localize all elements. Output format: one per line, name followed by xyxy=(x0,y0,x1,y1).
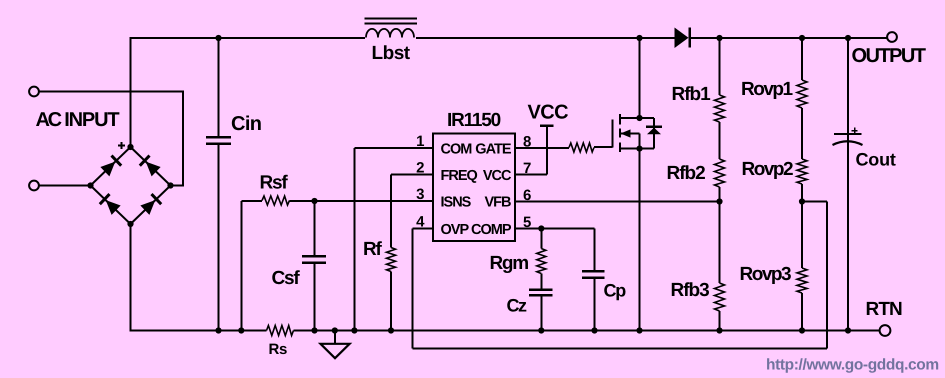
svg-text:COMP: COMP xyxy=(471,222,512,238)
svg-text:1: 1 xyxy=(416,133,424,150)
svg-text:7: 7 xyxy=(523,160,531,177)
svg-text:VCC: VCC xyxy=(483,168,512,184)
svg-text:VFB: VFB xyxy=(485,195,512,211)
svg-text:Rfb1: Rfb1 xyxy=(672,84,712,105)
svg-text:Rf: Rf xyxy=(363,239,383,260)
svg-text:http://www.go-gddq.com: http://www.go-gddq.com xyxy=(766,357,939,374)
svg-text:4: 4 xyxy=(416,214,425,231)
svg-text:Rsf: Rsf xyxy=(260,172,289,193)
svg-text:INPUT: INPUT xyxy=(64,109,119,131)
svg-text:Rovp1: Rovp1 xyxy=(741,79,794,100)
svg-text:Csf: Csf xyxy=(272,268,301,289)
svg-text:3: 3 xyxy=(416,186,424,203)
svg-text:RTN: RTN xyxy=(866,299,903,320)
svg-text:ISNS: ISNS xyxy=(441,195,472,211)
svg-text:Rfb3: Rfb3 xyxy=(671,280,710,301)
svg-text:IR1150: IR1150 xyxy=(447,110,501,131)
svg-text:Cp: Cp xyxy=(604,280,627,300)
svg-text:Rovp3: Rovp3 xyxy=(740,264,792,285)
svg-text:GATE: GATE xyxy=(475,142,512,158)
svg-text:AC: AC xyxy=(36,109,62,131)
svg-text:8: 8 xyxy=(523,134,531,151)
svg-text:OUTPUT: OUTPUT xyxy=(852,45,926,67)
svg-text:COM: COM xyxy=(441,142,473,158)
svg-text:5: 5 xyxy=(523,214,531,231)
svg-text:Rovp2: Rovp2 xyxy=(742,159,794,180)
svg-text:6: 6 xyxy=(523,187,531,204)
svg-text:2: 2 xyxy=(416,160,424,177)
svg-text:Rs: Rs xyxy=(269,341,288,358)
svg-text:VCC: VCC xyxy=(528,101,569,123)
svg-text:OVP: OVP xyxy=(441,222,470,238)
svg-text:Lbst: Lbst xyxy=(372,43,411,64)
svg-text:Rgm: Rgm xyxy=(490,253,529,274)
svg-text:Cz: Cz xyxy=(507,295,527,315)
svg-text:Cout: Cout xyxy=(856,149,896,169)
svg-text:Rfb2: Rfb2 xyxy=(667,163,706,184)
svg-text:Cin: Cin xyxy=(231,113,261,135)
svg-text:FREQ: FREQ xyxy=(441,168,478,184)
